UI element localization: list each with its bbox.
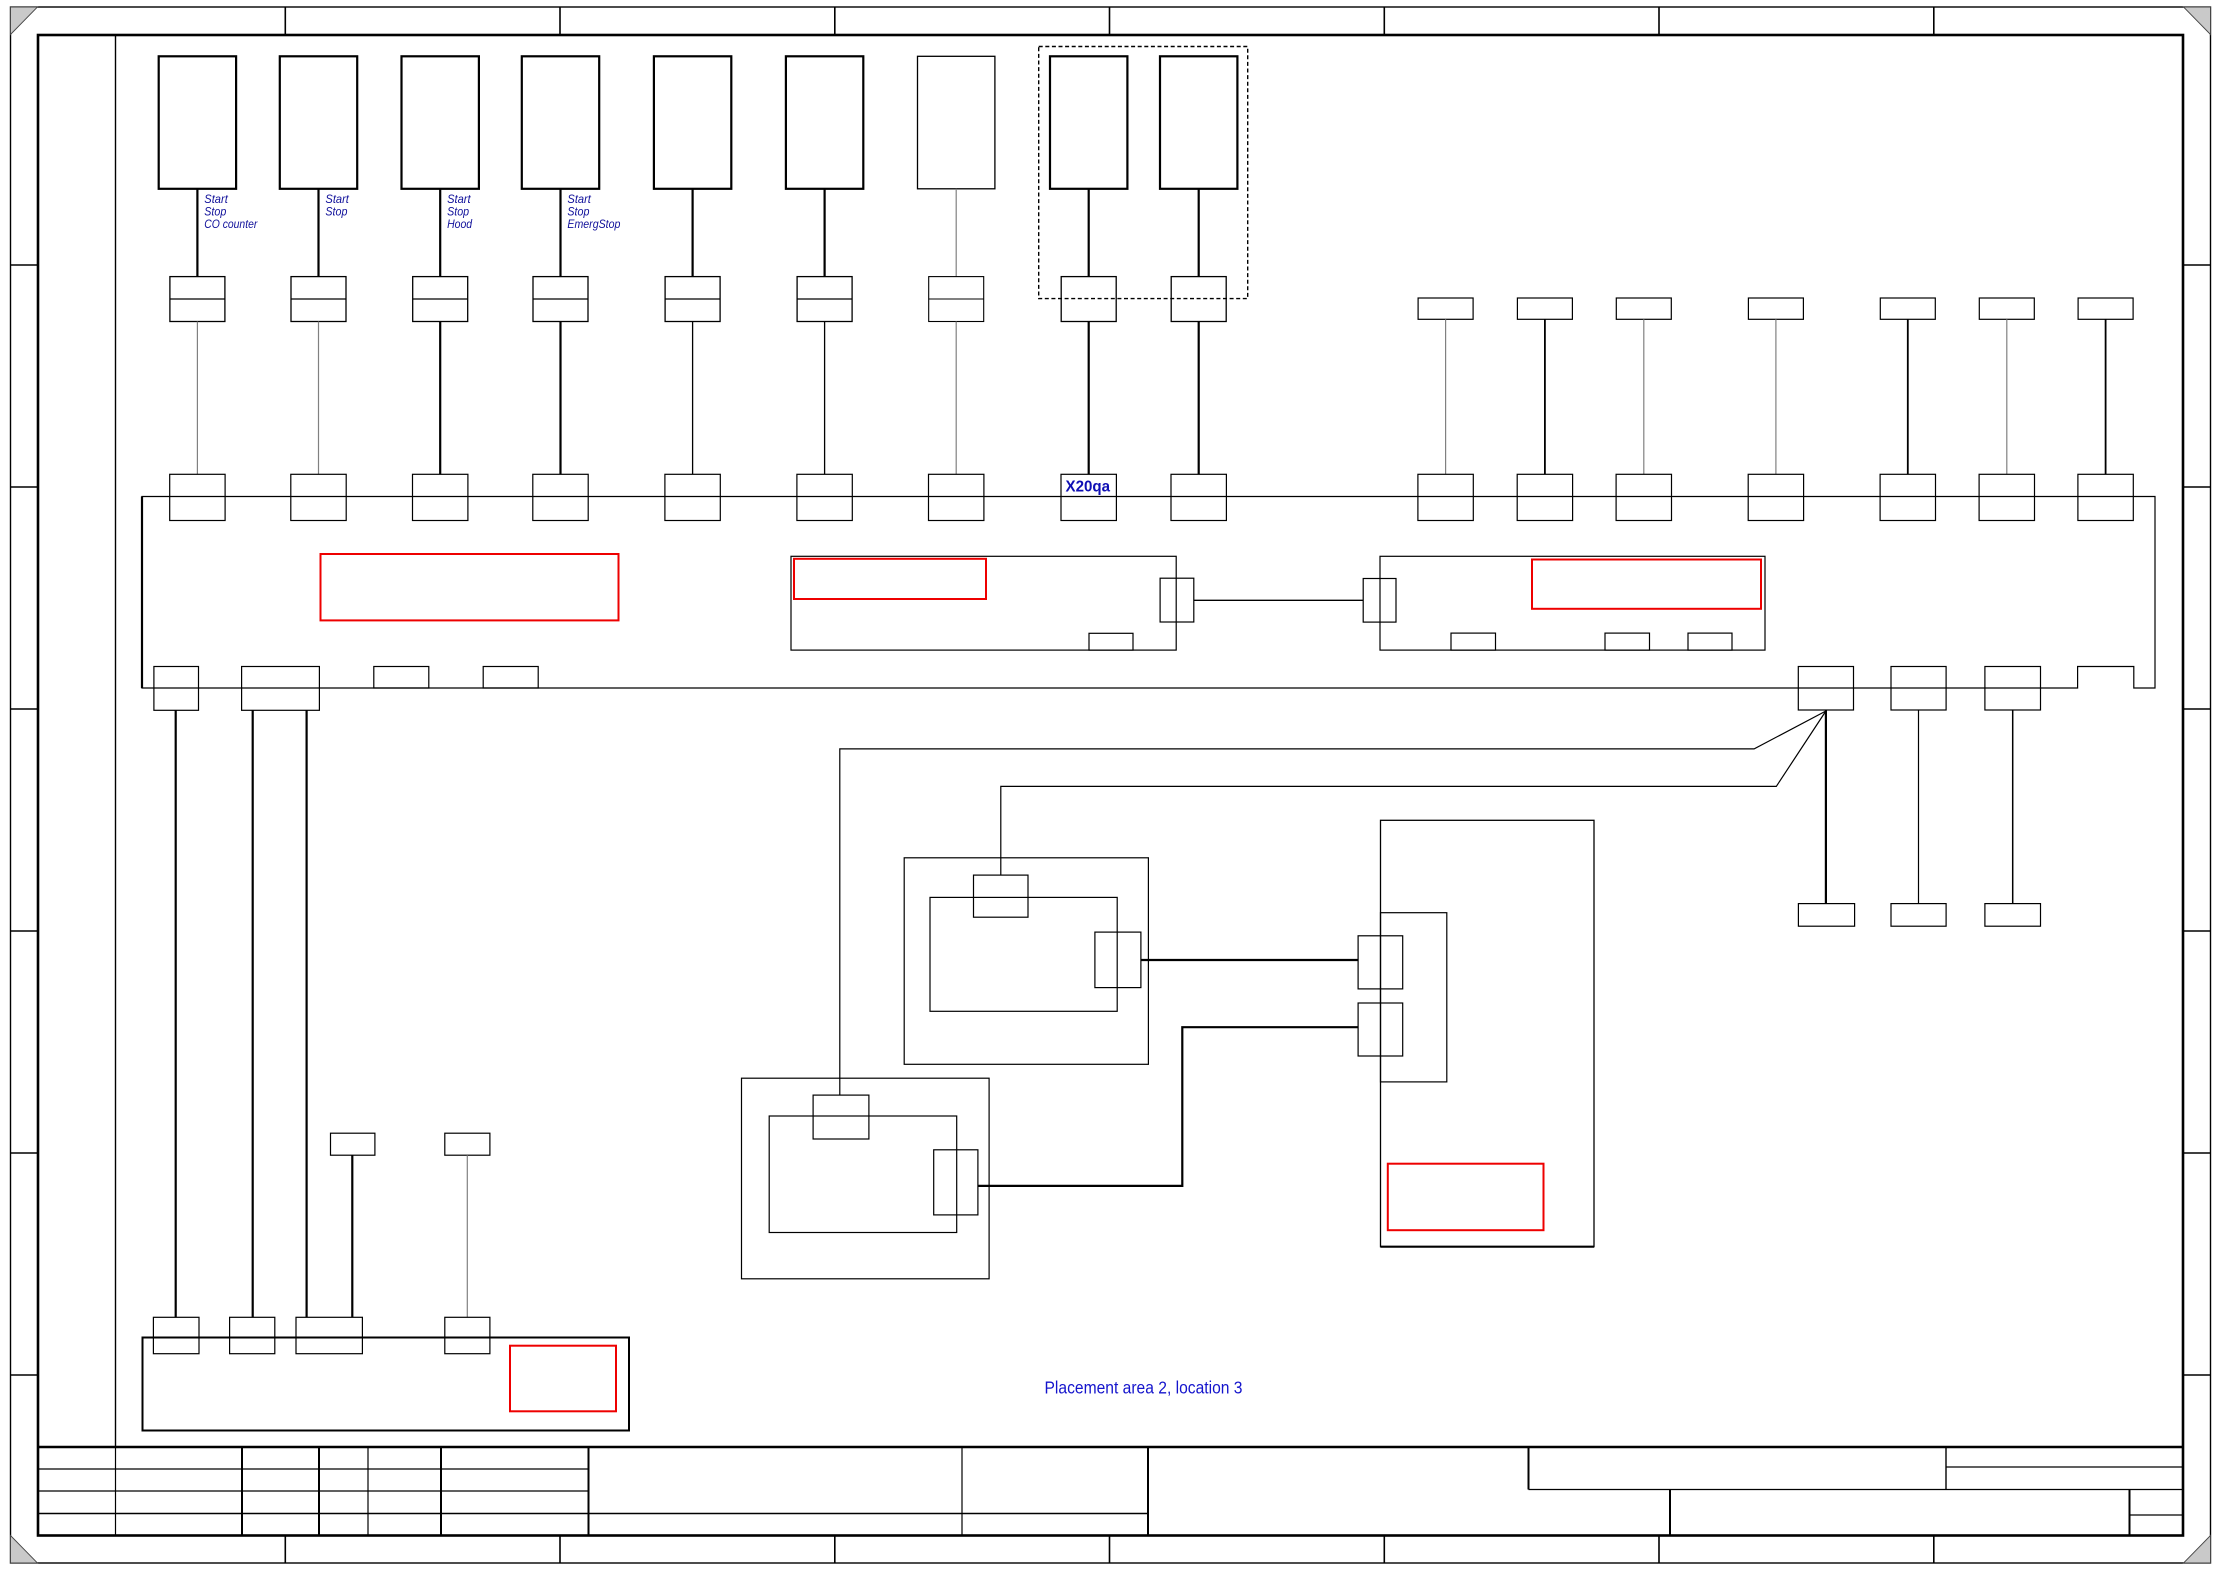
frame column tick bottom 3 (834, 1536, 836, 1564)
wire device 6 to terminal 6 (823, 189, 825, 277)
wire terminal 7 to rail connector 7 (955, 322, 957, 475)
rail connector right 2 (1517, 474, 1572, 520)
rail bottom stub L4 (483, 667, 538, 689)
title block vertical x319 (318, 1447, 320, 1536)
rail connector right 1 (1418, 474, 1473, 520)
stub box S2 (445, 1133, 490, 1155)
terminal block 9 (1171, 277, 1226, 322)
device outline 7 (918, 56, 995, 189)
rail device box middle (791, 556, 1176, 650)
rail connector 6 (797, 474, 852, 520)
frame column tick bottom 2 (559, 1536, 561, 1564)
frame column tick bottom 6 (1658, 1536, 1660, 1564)
wire device 7 to terminal 7 (955, 189, 957, 277)
title block vertical x588 (588, 1447, 590, 1536)
terminal block 6 (797, 277, 852, 322)
bottom rail terminal T1 (153, 1317, 199, 1353)
terminal block 1 (170, 277, 225, 322)
device outline 1 (159, 56, 236, 189)
terminal block 3 (413, 277, 468, 322)
wire terminal 6 to rail connector 6 (824, 322, 826, 475)
right box bottom notch box 3 (1688, 633, 1732, 650)
device outline 6 (786, 56, 863, 189)
title block row line y1513 left (38, 1513, 1148, 1515)
wire terminal 5 to rail connector 5 (692, 322, 694, 475)
marked area red rectangle 3 (1532, 560, 1761, 609)
wire stub 5 to rail connector (1907, 319, 1909, 474)
stub terminal 4 (1748, 298, 1803, 319)
device outline 8 (1050, 56, 1127, 189)
title block vertical x441 (440, 1447, 442, 1536)
terminal block 8 (1061, 277, 1116, 322)
title block vertical x368 (367, 1447, 369, 1536)
frame row tick left 5 (11, 1152, 39, 1154)
frame row tick left 3 (11, 708, 39, 710)
terminal block 2 divider (291, 298, 346, 300)
frame column tick bottom 4 (1109, 1536, 1111, 1564)
terminal block 4 (533, 277, 588, 322)
terminal block 3 divider (413, 298, 468, 300)
stub terminal 5 (1880, 298, 1935, 319)
rail connector 7 (929, 474, 984, 520)
marked area red rectangle 2 (794, 559, 986, 599)
right box bottom notch box 2 (1605, 633, 1650, 650)
corner triangle bottom-right (2184, 1536, 2211, 1564)
stub terminal 3 (1616, 298, 1671, 319)
title block top line (38, 1446, 2183, 1449)
lower-left unit inner box (769, 1116, 957, 1233)
terminal block 7 (929, 277, 984, 322)
wire stub 3 to rail connector (1643, 319, 1645, 474)
middle box bottom notch box (1089, 633, 1133, 650)
cable end box R2 (1891, 904, 1946, 927)
terminal block 6 divider (797, 298, 852, 300)
wire terminal 8 to rail connector 8 (1088, 322, 1090, 475)
frame column tick bottom 5 (1383, 1536, 1385, 1564)
title block vertical x115 (115, 1447, 117, 1536)
terminal block 7 divider (929, 298, 984, 300)
middle unit outer box (904, 858, 1148, 1065)
frame column tick top 1 (284, 7, 286, 35)
device outline 3 (402, 56, 479, 189)
wire stub 6 to rail connector (2006, 319, 2008, 474)
rail connector right 5 (1880, 474, 1935, 520)
corner triangle top-left (11, 7, 38, 35)
wire L1 down (175, 710, 177, 1317)
lower-left unit outer box (742, 1078, 990, 1279)
frame column tick top 3 (834, 7, 836, 35)
wire stub 4 to rail connector (1775, 319, 1777, 474)
lower-left unit top connector (813, 1095, 869, 1139)
wire device 2 to terminal 2 (317, 189, 319, 277)
wire terminal 4 to rail connector 4 (559, 322, 561, 475)
cable end box R3 (1985, 904, 2041, 927)
svg-text:Placement area 2, location 3: Placement area 2, location 3 (1045, 1378, 1243, 1398)
frame row tick left 4 (11, 930, 39, 932)
bottom terminal rail outline (143, 1338, 630, 1431)
right box left-edge connector (1363, 579, 1396, 623)
device outline 5 (654, 56, 731, 189)
frame column tick bottom 7 (1933, 1536, 1935, 1564)
dashed enclosure around devices 8-9 (1039, 47, 1248, 299)
stub terminal 2 (1517, 298, 1572, 319)
svg-text:Hood: Hood (447, 217, 472, 231)
svg-text:X20qa: X20qa (1066, 479, 1111, 496)
big right unit inner tall box (1381, 913, 1447, 1082)
terminal block 1 divider (170, 298, 225, 300)
device outline 2 (280, 56, 357, 189)
corner triangle top-right (2184, 7, 2211, 35)
title block row line y1467 right (1946, 1466, 2183, 1468)
bottom rail terminal T2 (230, 1317, 275, 1353)
wire middle box to right box (1194, 599, 1363, 601)
stub terminal 1 (1418, 298, 1473, 319)
title block vertical x242 (241, 1447, 243, 1536)
right box bottom notch box 1 (1451, 633, 1496, 650)
fan wire A to lower-left unit (840, 711, 1826, 1095)
wire L2a down (252, 710, 254, 1317)
frame row tick right 4 (2183, 930, 2211, 932)
wire S1 down (351, 1155, 353, 1317)
frame row tick right 5 (2183, 1152, 2211, 1154)
device outline 9 (1160, 56, 1237, 189)
bottom rail terminal T3 double (296, 1317, 362, 1353)
rail device box right (1380, 556, 1765, 650)
rail bottom connector L1 (154, 667, 199, 711)
cable end box R1 (1798, 904, 1854, 927)
fan wire B to middle unit (1001, 711, 1826, 875)
rail connector 5 (665, 474, 720, 520)
wire stub 1 to rail connector (1445, 319, 1447, 474)
wire terminal 2 to rail connector 2 (318, 322, 320, 475)
terminal rail X20qa outline (142, 497, 2155, 689)
wire terminal 3 to rail connector 3 (439, 322, 441, 475)
frame row tick right 2 (2183, 486, 2211, 488)
rail bottom stub L3 (374, 667, 429, 689)
terminal block 4 divider (533, 298, 588, 300)
frame row tick left 6 (11, 1374, 39, 1376)
wire stub 2 to rail connector (1544, 319, 1546, 474)
stub box S1 (331, 1133, 375, 1155)
wire S2 down (466, 1155, 468, 1317)
wire device 1 to terminal 1 (196, 189, 198, 277)
corner triangle bottom-left (11, 1536, 38, 1564)
terminal block 5 (665, 277, 720, 322)
frame column tick top 6 (1658, 7, 1660, 35)
left margin column line (115, 35, 117, 1447)
rail connector right 7 (2078, 474, 2133, 520)
middle unit right connector (1095, 932, 1141, 988)
title block vertical x1148 (1147, 1447, 1149, 1536)
rail bottom connector R2 (1891, 667, 1946, 711)
frame column tick top 2 (559, 7, 561, 35)
title block vertical x1528 (1528, 1447, 1530, 1490)
rail connector 8 (1061, 474, 1116, 520)
marked area red rectangle 1 (321, 554, 619, 620)
wire middle unit to big box C1 (1141, 959, 1358, 961)
bottom rail terminal T4 (445, 1317, 490, 1353)
middle unit inner box (930, 897, 1117, 1011)
frame column tick bottom 1 (284, 1536, 286, 1564)
wire device 9 to terminal 9 (1198, 189, 1200, 277)
title block row line y1491 left (38, 1490, 589, 1492)
frame row tick left 2 (11, 486, 39, 488)
frame column tick top 4 (1109, 7, 1111, 35)
wire R1 down (1825, 710, 1827, 903)
marked area red rectangle 5 (510, 1346, 616, 1412)
wire R2 down (1918, 710, 1920, 903)
terminal block 2 (291, 277, 346, 322)
title block vertical x962 (961, 1447, 963, 1536)
title block vertical x2129 (2129, 1490, 2131, 1536)
wire terminal 9 to rail connector 9 (1198, 322, 1200, 475)
title block vertical x1670 (1669, 1490, 1671, 1536)
middle box right-edge connector (1160, 578, 1194, 622)
wire L2b down (306, 710, 308, 1317)
terminal block 5 divider (665, 298, 720, 300)
big right unit connector C1 (1358, 936, 1403, 989)
rail connector 3 (413, 474, 468, 520)
terminal rail left edge (141, 497, 143, 689)
rail bottom connector R1 (1798, 667, 1853, 711)
title block row line y1489 right (1529, 1489, 2184, 1491)
frame row tick left 1 (11, 264, 39, 266)
wire terminal 1 to rail connector 1 (196, 322, 198, 475)
wire device 3 to terminal 3 (439, 189, 441, 277)
rail bottom connector L2 double (242, 667, 320, 711)
lower-left unit right connector (934, 1150, 978, 1215)
device outline 4 (522, 56, 599, 189)
frame column tick top 7 (1933, 7, 1935, 35)
rail connector 2 (291, 474, 346, 520)
title block row line y1469 (38, 1468, 589, 1470)
rail connector right 3 (1616, 474, 1671, 520)
rail bottom connector R3 (1985, 667, 2041, 711)
svg-text:Stop: Stop (325, 204, 347, 218)
svg-text:EmergStop: EmergStop (567, 217, 620, 231)
wire R3 down (2012, 710, 2014, 903)
svg-text:CO counter: CO counter (204, 217, 258, 231)
big right unit connector C2 (1358, 1003, 1403, 1056)
title block row line y1515 right (2130, 1514, 2184, 1516)
wire stub 7 to rail connector (2105, 319, 2107, 474)
stub terminal 7 (2078, 298, 2133, 319)
rail connector right 6 (1979, 474, 2034, 520)
wire device 8 to terminal 8 (1088, 189, 1090, 277)
wire device 4 to terminal 4 (559, 189, 561, 277)
big right unit bottom edge (1381, 1246, 1595, 1248)
rail connector 4 (533, 474, 588, 520)
wire lower-left unit to big box C2 (978, 1027, 1358, 1186)
frame row tick right 1 (2183, 264, 2211, 266)
big right unit box (1381, 820, 1595, 1246)
rail connector right 4 (1748, 474, 1803, 520)
rail connector 1 (170, 474, 225, 520)
frame row tick right 6 (2183, 1374, 2211, 1376)
wire device 5 to terminal 5 (691, 189, 693, 277)
stub terminal 6 (1979, 298, 2034, 319)
marked area red rectangle 4 (1388, 1164, 1544, 1231)
middle unit top connector (974, 875, 1029, 917)
rail connector 9 (1171, 474, 1226, 520)
frame column tick top 5 (1383, 7, 1385, 35)
title block vertical x1946 (1945, 1447, 1947, 1490)
frame row tick right 3 (2183, 708, 2211, 710)
